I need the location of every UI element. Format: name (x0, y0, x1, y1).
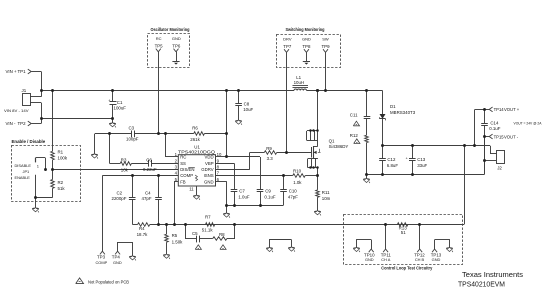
svg-text:47pF: 47pF (288, 194, 298, 199)
svg-text:Oscillator Monitoring: Oscillator Monitoring (151, 27, 190, 32)
svg-text:18.7k: 18.7k (137, 232, 149, 237)
svg-text:11: 11 (189, 187, 194, 192)
svg-text:ENABLE: ENABLE (15, 175, 31, 180)
svg-text:VIN -: VIN - (6, 121, 17, 126)
svg-text:TPS40210EVM: TPS40210EVM (458, 279, 505, 288)
svg-text:+: + (108, 99, 110, 103)
svg-text:COMP: COMP (96, 260, 108, 265)
svg-text:51.1k: 51.1k (202, 228, 214, 233)
svg-text:+: + (406, 156, 408, 160)
svg-text:CH B: CH B (415, 257, 425, 262)
svg-text:TP2: TP2 (18, 121, 27, 126)
svg-text:10m: 10m (322, 196, 331, 201)
svg-text:R5: R5 (172, 233, 178, 238)
svg-text:TP6: TP6 (172, 44, 181, 49)
svg-text:C2: C2 (117, 191, 123, 196)
svg-text:10k: 10k (121, 167, 129, 172)
svg-text:SW: SW (322, 37, 329, 42)
svg-text:D1: D1 (390, 104, 396, 109)
svg-text:R11: R11 (322, 190, 330, 195)
svg-text:33uF: 33uF (417, 163, 427, 168)
svg-text:C11: C11 (350, 112, 358, 117)
svg-text:C13: C13 (417, 157, 426, 162)
svg-text:1.50k: 1.50k (172, 239, 184, 244)
svg-text:100k: 100k (58, 155, 68, 160)
svg-text:JP1: JP1 (23, 169, 30, 174)
svg-text:VDD: VDD (205, 155, 214, 160)
svg-text:C7: C7 (239, 189, 245, 194)
svg-text:Si4386DY: Si4386DY (329, 144, 349, 149)
svg-text:2200pF: 2200pF (112, 196, 127, 201)
svg-text:0.1uF: 0.1uF (264, 194, 276, 199)
svg-text:FB: FB (180, 179, 186, 184)
svg-text:C9: C9 (265, 189, 271, 194)
svg-text:0.1uF: 0.1uF (489, 126, 501, 131)
svg-text:10: 10 (217, 152, 222, 157)
svg-text:TP9: TP9 (321, 44, 330, 49)
svg-text:VBP: VBP (205, 161, 214, 166)
svg-text:GND: GND (204, 179, 214, 184)
svg-text:R3: R3 (121, 158, 127, 163)
svg-text:COMP: COMP (180, 173, 193, 178)
svg-text:SS: SS (180, 161, 186, 166)
svg-text:GND: GND (365, 257, 374, 262)
svg-text:1.0k: 1.0k (293, 180, 302, 185)
svg-text:47pF: 47pF (142, 196, 152, 201)
svg-text:0.22uF: 0.22uF (143, 167, 157, 172)
svg-text:Q1: Q1 (329, 139, 335, 144)
svg-text:R8: R8 (219, 232, 225, 237)
svg-text:TP1: TP1 (18, 69, 27, 74)
svg-text:VOUT -: VOUT - (504, 134, 519, 139)
svg-text:C8: C8 (244, 102, 250, 107)
svg-text:100pF: 100pF (126, 137, 139, 142)
svg-text:C10: C10 (289, 189, 298, 194)
svg-text:RC: RC (156, 36, 162, 41)
svg-text:C1: C1 (117, 100, 123, 105)
svg-text:261k: 261k (190, 137, 200, 142)
svg-text:TP8: TP8 (302, 44, 311, 49)
svg-text:10uH: 10uH (294, 80, 305, 85)
svg-text:51: 51 (401, 230, 406, 235)
svg-text:RC: RC (180, 155, 186, 160)
svg-text:J2: J2 (497, 165, 502, 170)
svg-text:R10: R10 (293, 168, 302, 173)
svg-text:R1: R1 (58, 150, 64, 155)
svg-text:C5: C5 (192, 231, 198, 236)
svg-text:MBRS340T3: MBRS340T3 (390, 110, 416, 115)
svg-text:R9: R9 (266, 146, 272, 151)
svg-text:6.8uF: 6.8uF (387, 163, 399, 168)
svg-text:Not Populated on PCB: Not Populated on PCB (88, 279, 129, 284)
svg-text:GND: GND (432, 257, 441, 262)
svg-text:VOUT = 24V @ 2A: VOUT = 24V @ 2A (514, 121, 543, 125)
svg-text:J1: J1 (22, 88, 27, 93)
svg-text:R2: R2 (58, 180, 64, 185)
svg-text:R4: R4 (139, 226, 145, 231)
svg-text:DRV: DRV (283, 37, 292, 42)
svg-text:GND: GND (172, 36, 181, 41)
svg-text:Control Loop Test Circuitry: Control Loop Test Circuitry (381, 266, 433, 271)
svg-text:C12: C12 (387, 157, 396, 162)
svg-text:R7: R7 (205, 215, 211, 220)
svg-text:100uF: 100uF (114, 106, 127, 111)
svg-text:10uF: 10uF (243, 107, 253, 112)
svg-text:C3: C3 (129, 125, 135, 130)
svg-text:C4: C4 (145, 191, 151, 196)
svg-text:TP7: TP7 (283, 44, 292, 49)
svg-text:R6: R6 (192, 125, 198, 130)
svg-text:VIN 8V - 14V: VIN 8V - 14V (4, 108, 29, 113)
svg-text:TP14: TP14 (494, 107, 505, 112)
svg-text:DIS/EN: DIS/EN (180, 167, 194, 172)
svg-text:VOUT +: VOUT + (504, 107, 520, 112)
svg-text:Enable / Disable: Enable / Disable (12, 139, 46, 144)
svg-text:TP15: TP15 (494, 134, 505, 139)
svg-text:R12: R12 (350, 133, 359, 138)
svg-text:GND: GND (113, 260, 122, 265)
svg-text:C14: C14 (490, 121, 499, 126)
svg-text:3.3: 3.3 (267, 156, 274, 161)
svg-text:GDRV: GDRV (201, 167, 213, 172)
svg-text:DISABLE: DISABLE (15, 163, 32, 168)
svg-text:VIN +: VIN + (6, 69, 18, 74)
svg-text:Switching Monitoring: Switching Monitoring (286, 27, 325, 32)
svg-text:1.0uF: 1.0uF (238, 194, 250, 199)
svg-text:Texas Instruments: Texas Instruments (462, 270, 523, 279)
svg-text:TP5: TP5 (155, 44, 164, 49)
svg-text:ISNS: ISNS (204, 173, 214, 178)
svg-text:GND: GND (302, 37, 311, 42)
svg-text:C6: C6 (146, 157, 152, 162)
svg-text:51k: 51k (58, 186, 66, 191)
svg-text:CH A: CH A (381, 257, 390, 262)
